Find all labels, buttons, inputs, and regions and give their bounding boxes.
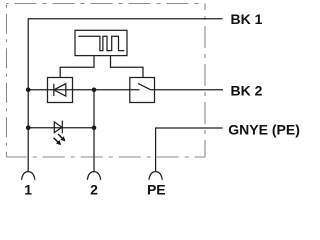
svg-text:PE: PE xyxy=(147,182,166,198)
svg-text:BK 2: BK 2 xyxy=(231,83,263,99)
svg-text:BK 1: BK 1 xyxy=(231,11,263,27)
svg-text:1: 1 xyxy=(24,182,32,198)
svg-text:2: 2 xyxy=(90,182,98,198)
svg-text:GNYE (PE): GNYE (PE) xyxy=(228,122,300,138)
